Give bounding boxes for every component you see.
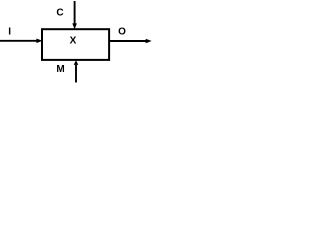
wire control C [74,1,76,25]
wire mechanism M [75,65,77,83]
arrowhead input I [36,39,42,44]
arrowhead output O [146,39,152,44]
svg-text:M: M [56,64,64,75]
arrowhead mechanism M [74,60,79,65]
wire output O [110,40,147,42]
wire input I [0,40,37,42]
svg-text:X: X [70,36,77,47]
svg-text:C: C [56,7,63,18]
arrowhead control C [72,23,77,29]
process box X [42,29,109,60]
svg-text:O: O [118,27,126,38]
svg-text:I: I [8,27,11,38]
